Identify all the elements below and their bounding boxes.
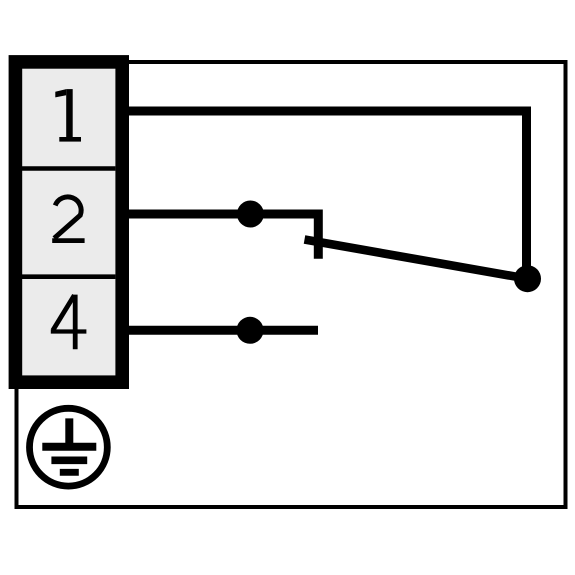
earth stem <box>65 418 73 446</box>
earth bar long <box>42 443 96 451</box>
junction dot at right-side node <box>514 265 541 292</box>
enclosure outline <box>17 62 566 507</box>
earth circle <box>30 408 108 486</box>
wire from terminal 4 <box>120 326 318 335</box>
junction dot on wire 2 <box>237 201 264 228</box>
pin number 1 <box>55 89 81 142</box>
terminal block divider between cell 1 and 2 <box>22 166 115 170</box>
pin number 4 <box>51 295 87 350</box>
switch S blade (movable contact) <box>305 240 528 279</box>
earth bar middle <box>51 456 87 464</box>
terminal block J1 body <box>15 62 122 382</box>
wire from terminal 2 to switch fixed contact <box>120 214 318 259</box>
pin number 2 <box>52 197 84 241</box>
junction dot on wire 4 <box>237 317 264 344</box>
terminal block divider between cell 2 and 4 <box>22 274 115 279</box>
protective earth symbol <box>30 408 108 486</box>
wire from terminal 1 to right-side node <box>120 111 527 279</box>
earth bar short <box>60 469 79 476</box>
